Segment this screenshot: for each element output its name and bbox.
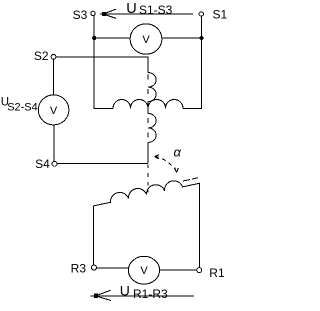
svg-text:S2: S2: [34, 49, 49, 63]
alpha arrowhead down: [175, 168, 179, 173]
wire S2 to top of vertical winding: [56, 57, 148, 73]
svg-text:U: U: [126, 1, 136, 17]
rotor axis dash-dot: [183, 178, 198, 181]
junction dot right: [200, 36, 204, 40]
vertical winding S2-S4 (4 humps facing right): [148, 73, 156, 143]
wire voltmeter V1 right: [162, 37, 202, 39]
terminal S2: [51, 54, 56, 59]
svg-text:S4: S4: [35, 157, 50, 171]
voltmeter V3: [128, 256, 159, 284]
rotor winding R1-R3 (tilted, 4 humps): [93, 181, 199, 268]
wire R3 to voltmeter V3: [97, 267, 130, 269]
dashed vertical axis: [147, 75, 149, 159]
svg-text:V: V: [50, 105, 58, 117]
wire voltmeter V3 to R1: [160, 269, 197, 271]
svg-text:S1-S3: S1-S3: [139, 3, 173, 17]
alpha arrowhead left: [154, 155, 159, 159]
svg-text:S3: S3: [73, 8, 88, 22]
alpha angle arc (dashed): [155, 156, 176, 171]
wire S1 vertical + right lead of horizontal winding: [183, 16, 202, 108]
axis stub through crossing: [147, 102, 149, 114]
terminal S4: [52, 161, 57, 166]
svg-text:α: α: [174, 145, 182, 160]
terminal R3: [92, 265, 97, 270]
lead from vertical winding bottom: [147, 142, 149, 163]
svg-text:S1: S1: [213, 7, 228, 21]
wire S3 vertical + left lead of horizontal winding: [94, 16, 113, 109]
wire voltmeter V2 to S4: [53, 125, 55, 161]
terminal R1: [197, 268, 202, 273]
voltmeter V1: [130, 24, 162, 54]
junction dot left: [92, 36, 96, 40]
wire S2 down to voltmeter V2: [53, 59, 55, 95]
svg-text:V: V: [140, 265, 148, 277]
svg-text:V: V: [142, 34, 150, 46]
svg-text:R3: R3: [71, 261, 87, 275]
terminal S3: [91, 11, 95, 15]
voltmeter V2: [38, 95, 69, 125]
svg-text:R1: R1: [209, 266, 225, 280]
terminal S1: [199, 12, 203, 16]
svg-text:R1-R3: R1-R3: [133, 287, 168, 301]
svg-text:S2-S4: S2-S4: [7, 102, 38, 114]
arrow U R1-R3: [91, 290, 195, 300]
arrow U S1-S3: [100, 9, 193, 18]
svg-text:U: U: [120, 282, 130, 298]
horizontal winding S1-S3 (4 humps facing up): [113, 100, 183, 109]
wire S4 to bottom of vertical winding: [57, 162, 148, 164]
wire to voltmeter V1 left: [94, 37, 130, 39]
